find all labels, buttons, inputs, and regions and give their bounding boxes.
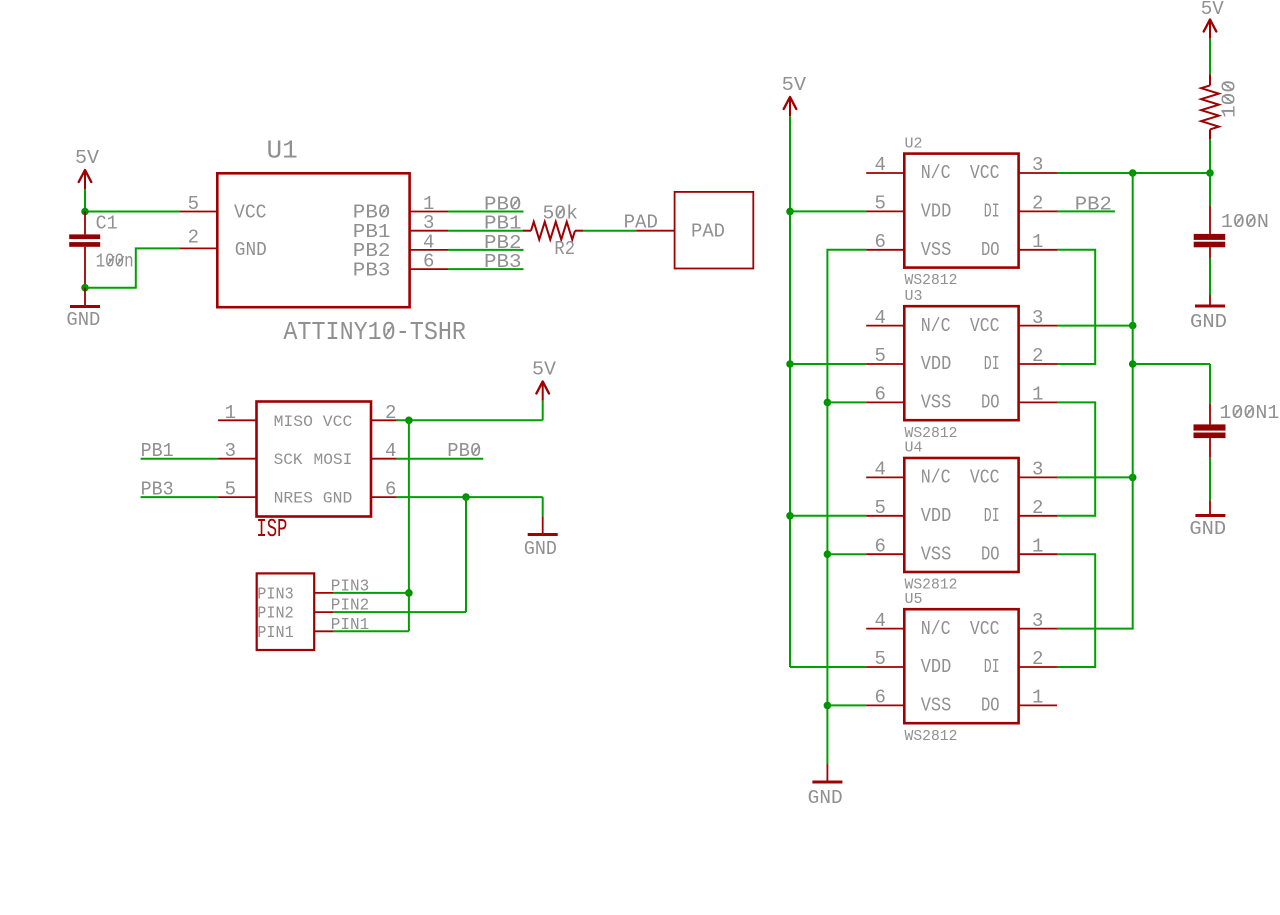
svg-text:5V: 5V xyxy=(75,147,100,169)
LED U3 WS2812 body xyxy=(904,306,1018,420)
wire net PB3 xyxy=(448,268,524,270)
capacitor C1 xyxy=(69,212,100,288)
wire net PB3 to ISP xyxy=(141,496,219,498)
pin 1 lead DO (U2) xyxy=(1019,231,1057,253)
connector PIN1-3 body xyxy=(257,573,315,650)
pin 6 lead VSS (U2) xyxy=(866,231,904,253)
svg-text:PAD: PAD xyxy=(691,220,725,242)
svg-text:1: 1 xyxy=(225,402,236,424)
svg-text:DO: DO xyxy=(981,392,1000,414)
wire rail to U5 VSS xyxy=(827,704,866,706)
svg-text:6: 6 xyxy=(875,231,886,253)
supply 5V (ISP) xyxy=(532,358,557,420)
svg-text:ISP: ISP xyxy=(256,514,287,544)
junction VCC net / 100N xyxy=(1206,169,1214,177)
svg-text:1: 1 xyxy=(1032,535,1043,557)
pin 2 lead DI (U2) xyxy=(1019,193,1057,215)
svg-text:6: 6 xyxy=(875,687,886,709)
resistor R2 50k xyxy=(523,222,583,240)
svg-text:3: 3 xyxy=(1032,307,1043,329)
svg-text:5V: 5V xyxy=(1201,0,1225,20)
svg-text:C1: C1 xyxy=(96,212,118,234)
svg-text:SCK: SCK xyxy=(274,451,303,469)
wire ISP GND net xyxy=(397,496,543,498)
svg-text:U2: U2 xyxy=(905,135,923,152)
value 50k xyxy=(543,203,579,225)
junction U3 VSS xyxy=(824,399,832,407)
junction PIN3/PIN1 xyxy=(405,589,413,597)
svg-text:PIN1: PIN1 xyxy=(257,624,293,643)
wire net PIN2 xyxy=(333,611,466,613)
svg-text:GND: GND xyxy=(66,309,100,331)
svg-text:3: 3 xyxy=(225,440,236,462)
pin 5 lead (VCC) xyxy=(180,193,217,215)
svg-text:PIN1: PIN1 xyxy=(331,616,369,635)
wire net PIN3 xyxy=(333,592,409,594)
svg-text:4: 4 xyxy=(875,154,886,176)
svg-text:PB3: PB3 xyxy=(141,479,174,501)
svg-text:5: 5 xyxy=(875,497,886,519)
wire net PB2 (U2 DI) xyxy=(1057,210,1115,212)
svg-text:100n: 100n xyxy=(96,251,134,273)
capacitor 100N1 xyxy=(1194,364,1226,458)
wire U3 DO to U4 DI xyxy=(1057,402,1095,515)
pin 3 lead (PB1) xyxy=(410,212,448,234)
svg-text:PB2: PB2 xyxy=(1075,193,1112,215)
svg-text:3: 3 xyxy=(1032,154,1043,176)
svg-text:100N: 100N xyxy=(1221,211,1269,233)
wire 5V to U1 VCC xyxy=(85,211,180,213)
pin 6 lead VSS (U5) xyxy=(866,687,904,709)
pin 4 lead N/C (U4) xyxy=(866,459,904,481)
ground GND (ISP) xyxy=(524,497,558,560)
pad PAD body xyxy=(675,192,754,269)
pin 3 lead VCC (U5) xyxy=(1019,610,1057,632)
pin 5 lead VDD (U3) xyxy=(866,345,904,367)
net label PB0 xyxy=(447,440,481,462)
wire U3 VCC xyxy=(1057,325,1133,327)
svg-text:N/C: N/C xyxy=(921,315,951,337)
pin 2 lead (GND) xyxy=(180,226,217,248)
wire net PB1 to R2 xyxy=(448,230,523,232)
svg-text:VSS: VSS xyxy=(921,392,952,414)
pin lead PAD pad xyxy=(636,230,674,232)
pin 4 lead N/C (U5) xyxy=(866,610,904,632)
value 100n xyxy=(96,251,134,273)
wire ISP VCC to 5V xyxy=(397,419,543,421)
wire 5V to U4 VDD xyxy=(790,515,866,517)
pin 1 lead DO (U5) xyxy=(1019,687,1057,709)
pin 4 lead N/C (U2) xyxy=(866,154,904,176)
wire U2 VSS to GND rail xyxy=(827,250,866,764)
junction U5 VSS xyxy=(824,702,832,710)
svg-text:N/C: N/C xyxy=(921,467,951,489)
wire U2 DO to U3 DI xyxy=(1057,250,1095,364)
svg-text:5: 5 xyxy=(225,479,236,501)
supply 5V (LED rail) xyxy=(782,74,807,667)
svg-text:6: 6 xyxy=(875,384,886,406)
wire net PB0 xyxy=(448,211,524,213)
svg-text:2: 2 xyxy=(1032,345,1043,367)
svg-text:2: 2 xyxy=(1032,497,1043,519)
pin 1 lead DO (U4) xyxy=(1019,535,1057,557)
junction node 5V/C1 xyxy=(81,208,89,216)
svg-text:DO: DO xyxy=(981,543,1000,565)
svg-text:2: 2 xyxy=(385,402,396,424)
junction U2 VDD xyxy=(786,208,794,216)
svg-text:DI: DI xyxy=(984,353,1000,375)
svg-text:VCC: VCC xyxy=(970,162,1000,184)
pin 3 lead VCC (U4) xyxy=(1019,459,1057,481)
pin 3 lead (SCK) xyxy=(218,440,256,462)
svg-text:5: 5 xyxy=(875,648,886,670)
pin 4 lead (PB2) xyxy=(410,231,448,253)
svg-text:DO: DO xyxy=(981,695,1000,717)
svg-text:VCC: VCC xyxy=(970,467,1000,489)
pin 4 lead N/C (U3) xyxy=(866,307,904,329)
svg-text:100N1: 100N1 xyxy=(1219,402,1279,424)
wire 5V to U3 VDD xyxy=(790,363,866,365)
pin 2 lead DI (U3) xyxy=(1019,345,1057,367)
pin 6 lead (GND) xyxy=(371,479,397,501)
pin 2 lead (VCC) xyxy=(371,402,397,424)
LED U5 WS2812 body xyxy=(904,609,1018,723)
junction ISP VCC / PIN3 branch xyxy=(405,417,413,425)
svg-text:5: 5 xyxy=(875,345,886,367)
svg-text:U3: U3 xyxy=(905,288,923,305)
value 100N xyxy=(1221,211,1269,233)
svg-text:5: 5 xyxy=(875,193,886,215)
junction U3 VDD xyxy=(786,360,794,368)
svg-text:DI: DI xyxy=(984,201,1000,223)
wire vertical GND/PIN2 xyxy=(465,497,467,612)
svg-text:U5: U5 xyxy=(905,591,923,608)
supply 5V (top right) xyxy=(1201,0,1225,74)
svg-text:VCC: VCC xyxy=(970,315,1000,337)
svg-text:VSS: VSS xyxy=(921,695,952,717)
junction U4 VDD xyxy=(786,512,794,520)
svg-text:2: 2 xyxy=(1032,648,1043,670)
junction U4 VSS xyxy=(824,550,832,558)
svg-text:6: 6 xyxy=(423,251,434,273)
pin 6 lead VSS (U4) xyxy=(866,535,904,557)
svg-text:DO: DO xyxy=(981,239,1000,261)
wire ISP MOSI net PB0 xyxy=(397,458,484,460)
pin 1 lead (PB0) xyxy=(410,193,448,215)
svg-text:PIN2: PIN2 xyxy=(257,605,293,624)
wire rail to U4 VSS xyxy=(827,553,866,555)
svg-text:GND: GND xyxy=(524,538,557,560)
wire net PB2 xyxy=(448,249,524,251)
wire resistor to junction xyxy=(1209,139,1211,173)
svg-text:PIN2: PIN2 xyxy=(331,597,369,616)
svg-text:VDD: VDD xyxy=(921,353,952,375)
value ATTINY10-TSHR xyxy=(283,317,466,347)
pin lead PIN2 xyxy=(314,611,333,613)
supply 5V (left, net 5V) xyxy=(75,147,100,212)
resistor 100 xyxy=(1201,74,1219,139)
svg-text:U4: U4 xyxy=(905,440,923,457)
junction U4 VCC xyxy=(1129,474,1137,482)
junction ISP GND / PIN2 branch xyxy=(462,493,470,501)
svg-text:100: 100 xyxy=(1219,80,1241,118)
svg-text:MOSI: MOSI xyxy=(314,451,353,469)
wire 5V to U5 VDD xyxy=(790,666,866,668)
net label PB0 xyxy=(484,193,522,215)
svg-text:DI: DI xyxy=(984,656,1000,678)
value 100 (rotated) xyxy=(1219,80,1241,118)
wire U2 VCC to 5V column xyxy=(1057,172,1210,174)
pin 3 lead VCC (U2) xyxy=(1019,154,1057,176)
svg-text:5: 5 xyxy=(188,193,199,215)
svg-text:U1: U1 xyxy=(267,136,298,166)
svg-text:PB3: PB3 xyxy=(484,251,522,273)
svg-text:4: 4 xyxy=(875,459,886,481)
wire U4 VCC xyxy=(1057,476,1133,478)
wire rail to U3 VSS xyxy=(827,401,866,403)
wire R2 to PAD xyxy=(583,230,636,232)
svg-text:4: 4 xyxy=(385,440,396,462)
junction U2 VCC / vertical xyxy=(1129,169,1137,177)
svg-text:2: 2 xyxy=(188,226,199,248)
wire 100N1 to GND xyxy=(1209,458,1211,501)
svg-text:VCC: VCC xyxy=(234,202,267,224)
svg-text:1: 1 xyxy=(1032,231,1043,253)
svg-text:VCC: VCC xyxy=(970,618,1000,640)
svg-text:VDD: VDD xyxy=(921,201,952,223)
svg-text:GND: GND xyxy=(235,239,267,261)
wire net PB1 to ISP xyxy=(141,458,219,460)
svg-text:NRES GND: NRES GND xyxy=(274,490,353,508)
pin names SCK MOSI xyxy=(274,451,353,469)
pin lead PIN1 xyxy=(314,630,333,632)
junction U3 VCC xyxy=(1129,322,1137,330)
IC U1 ATTINY10-TSHR body xyxy=(217,173,409,307)
svg-text:PIN3: PIN3 xyxy=(257,586,293,605)
svg-text:3: 3 xyxy=(1032,610,1043,632)
ground GND (LED rail) xyxy=(808,764,843,809)
LED U2 WS2812 body xyxy=(904,154,1018,268)
svg-text:4: 4 xyxy=(875,610,886,632)
svg-text:GND: GND xyxy=(1189,518,1226,540)
junction 100N1 branch xyxy=(1129,360,1137,368)
svg-text:MISO VCC: MISO VCC xyxy=(274,413,353,431)
svg-text:VDD: VDD xyxy=(921,656,952,678)
svg-text:ATTINY10-TSHR: ATTINY10-TSHR xyxy=(283,317,466,347)
pin 5 lead (NRES) xyxy=(218,479,256,501)
pin 3 lead VCC (U3) xyxy=(1019,307,1057,329)
wire U4 DO to U5 DI xyxy=(1057,554,1095,667)
svg-text:WS2812: WS2812 xyxy=(905,728,958,745)
pin 5 lead VDD (U2) xyxy=(866,193,904,215)
pin 6 lead (PB3) xyxy=(410,251,448,273)
capacitor 100N xyxy=(1194,173,1226,258)
ground GND (100N) xyxy=(1190,295,1227,333)
svg-text:2: 2 xyxy=(1032,193,1043,215)
svg-text:5V: 5V xyxy=(782,74,807,96)
pin 5 lead VDD (U4) xyxy=(866,497,904,519)
wire branch to 100N1 xyxy=(1133,363,1210,365)
pin 4 lead (MOSI) xyxy=(371,440,397,462)
ground GND (left) xyxy=(66,288,100,332)
pin lead PIN3 xyxy=(314,592,333,594)
svg-text:VSS: VSS xyxy=(921,239,952,261)
svg-text:6: 6 xyxy=(875,535,886,557)
pin 6 lead VSS (U3) xyxy=(866,384,904,406)
pin name PB0 xyxy=(353,202,391,224)
svg-text:VDD: VDD xyxy=(921,505,952,527)
ground GND (100N1) xyxy=(1189,501,1226,541)
wire 100N to GND xyxy=(1209,258,1211,295)
svg-text:GND: GND xyxy=(1190,311,1227,333)
svg-text:5V: 5V xyxy=(532,358,557,380)
svg-text:N/C: N/C xyxy=(921,618,951,640)
pin 1 lead DO (U3) xyxy=(1019,384,1057,406)
svg-text:PB3: PB3 xyxy=(353,259,391,281)
svg-text:PIN3: PIN3 xyxy=(331,577,369,596)
svg-text:PB1: PB1 xyxy=(141,440,174,462)
svg-text:PB0: PB0 xyxy=(447,440,481,462)
wire vertical VCC/PIN3/PIN1 xyxy=(408,420,410,631)
svg-text:N/C: N/C xyxy=(921,162,951,184)
svg-text:GND: GND xyxy=(808,787,843,809)
pin 2 lead DI (U5) xyxy=(1019,648,1057,670)
connector ISP body xyxy=(257,402,372,517)
wire net PIN1 xyxy=(333,630,409,632)
svg-text:DI: DI xyxy=(984,505,1000,527)
pin 1 lead (MISO, n/c) xyxy=(218,402,256,424)
svg-text:WS2812: WS2812 xyxy=(905,272,958,289)
svg-text:4: 4 xyxy=(875,307,886,329)
wire C1 to U1 GND xyxy=(85,248,180,287)
wire 5V to U2 VDD xyxy=(790,210,866,212)
pin 5 lead VDD (U5) xyxy=(866,648,904,670)
svg-text:6: 6 xyxy=(385,479,396,501)
junction node GND/C1 xyxy=(81,284,89,292)
svg-text:R2: R2 xyxy=(554,238,575,260)
svg-text:VSS: VSS xyxy=(921,543,952,565)
wire VCC vertical to U5 xyxy=(1057,173,1133,629)
svg-text:1: 1 xyxy=(1032,384,1043,406)
value 100N1 xyxy=(1219,402,1279,424)
pin 2 lead DI (U4) xyxy=(1019,497,1057,519)
svg-text:3: 3 xyxy=(1032,459,1043,481)
LED U4 WS2812 body xyxy=(904,458,1018,572)
svg-text:1: 1 xyxy=(1032,687,1043,709)
